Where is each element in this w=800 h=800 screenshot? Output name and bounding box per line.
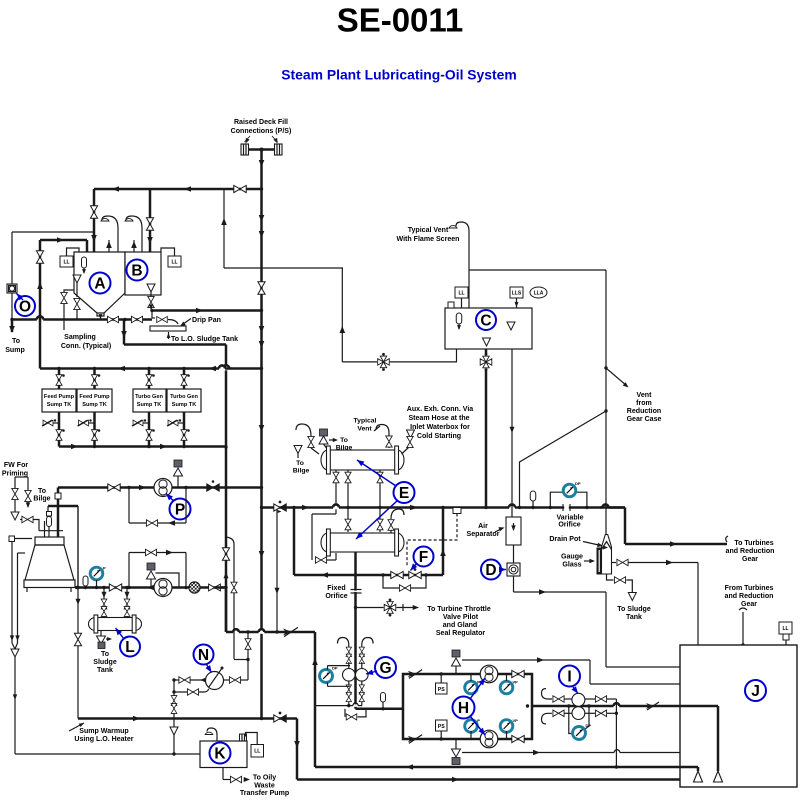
level switch LL tank K xyxy=(251,745,264,758)
svg-text:Feed Pump: Feed Pump xyxy=(79,394,110,400)
pipe thermostatic manifold xyxy=(294,574,443,577)
heater L drain xyxy=(100,631,102,637)
svg-text:Raised Deck Fill: Raised Deck Fill xyxy=(234,119,288,126)
svg-text:Typical: Typical xyxy=(354,418,377,425)
svg-text:With Flame Screen: With Flame Screen xyxy=(397,236,460,243)
pipe strainer suction xyxy=(11,232,13,284)
svg-text:Sump: Sump xyxy=(5,347,25,354)
valve on fill trunk xyxy=(258,282,265,294)
pipe main supply header xyxy=(262,506,626,509)
pipe main return line into tank J xyxy=(315,766,698,769)
svg-text:Feed Pump: Feed Pump xyxy=(44,394,75,400)
level switch LL right of tank B xyxy=(168,256,181,267)
fitting on tank K top xyxy=(240,734,247,741)
heat exchanger E cooler 2 xyxy=(328,533,397,552)
svg-text:Air: Air xyxy=(478,523,488,530)
node C xyxy=(476,310,496,330)
svg-text:Using L.O. Heater: Using L.O. Heater xyxy=(74,736,133,743)
valve tank A fill xyxy=(90,206,97,218)
funnel FW drain xyxy=(14,500,16,512)
pipe warmup drop to tank line xyxy=(296,719,299,780)
pipe gear case drain into tank J xyxy=(605,592,607,667)
valve sump warmup xyxy=(274,715,286,722)
check valve bottom left xyxy=(408,735,422,744)
suction bellmouths in tank J xyxy=(694,771,703,782)
svg-text:To Turbines: To Turbines xyxy=(734,540,773,547)
pilot sensing dashed line xyxy=(407,514,457,567)
thermometer tank C xyxy=(456,313,462,324)
tank A settling tank body xyxy=(74,252,125,313)
svg-text:Turbo Gen: Turbo Gen xyxy=(170,394,198,400)
pipe drop to tank A xyxy=(93,189,96,252)
purifier supply pumps G xyxy=(343,669,356,682)
pump standby lube oil pump xyxy=(154,579,172,597)
pipe cooler drain spur xyxy=(276,508,278,633)
svg-text:SE-0011: SE-0011 xyxy=(337,2,464,39)
svg-text:Vent: Vent xyxy=(357,426,372,433)
svg-text:Turbo Gen: Turbo Gen xyxy=(135,394,163,400)
svg-text:LL: LL xyxy=(63,259,69,265)
node E xyxy=(394,482,415,503)
pointer arrow I to pump xyxy=(573,687,578,694)
node H xyxy=(453,697,475,719)
svg-text:Reduction: Reduction xyxy=(627,408,661,415)
svg-text:Gear Case: Gear Case xyxy=(627,416,662,423)
vent hook left of cooler 1 xyxy=(296,424,311,436)
pipe heater N inlet from tank K side xyxy=(174,679,206,681)
relief line bottom to sump tank xyxy=(462,752,680,754)
node J xyxy=(745,680,766,701)
svg-text:From Turbines: From Turbines xyxy=(725,585,774,592)
vent swan neck on tank B xyxy=(126,216,142,252)
svg-text:Variable: Variable xyxy=(556,514,583,521)
pipe cooler bypass down leg xyxy=(293,508,296,576)
svg-text:To: To xyxy=(38,488,47,495)
level switch LLS tank C xyxy=(510,287,523,298)
valve A drain right xyxy=(131,316,142,322)
relief valve bottom H xyxy=(452,758,460,765)
drain pot vessel xyxy=(602,535,612,575)
tank A drain chute xyxy=(97,313,104,316)
drip pan xyxy=(150,326,186,331)
test capsule on header xyxy=(530,491,536,501)
pressure switch PS top xyxy=(436,683,448,694)
svg-text:G: G xyxy=(379,660,391,677)
tank Feed Pump Sump TK 2 xyxy=(77,389,112,412)
svg-text:To Turbine Throttle: To Turbine Throttle xyxy=(427,606,491,613)
valve heater bypass drop xyxy=(77,588,79,719)
svg-text:Sump Warmup: Sump Warmup xyxy=(79,728,129,735)
pipe purifier return spur xyxy=(315,705,362,707)
relief valve cooler 1 to bilge xyxy=(320,429,328,436)
tank Turbo Gen Sump TK 2 xyxy=(167,389,201,412)
LO heater N steam heater xyxy=(206,672,224,690)
pipe vent header to gear case xyxy=(469,269,606,271)
thermometer in tank A xyxy=(82,257,87,268)
pipe purifier discharge riser xyxy=(314,632,317,767)
node O xyxy=(15,296,35,316)
valve tank B drain lower xyxy=(151,308,152,311)
pipe air separator to sight glass xyxy=(513,545,515,563)
pump manifold block H xyxy=(403,674,532,739)
pressure gauge on header xyxy=(90,567,103,580)
label Sump Warmup Using L.O. Heater xyxy=(69,723,84,731)
svg-text:L: L xyxy=(125,639,134,656)
svg-text:Connections (P/S): Connections (P/S) xyxy=(231,128,292,135)
svg-text:A: A xyxy=(94,276,105,293)
guard valve with locking arrow xyxy=(207,484,219,491)
valve heater N outlet xyxy=(224,679,230,681)
pipe riser to tank C line xyxy=(341,268,343,362)
valve tank B fill xyxy=(146,218,153,230)
pump P bypass loop xyxy=(128,488,130,524)
svg-text:and Reduction: and Reduction xyxy=(725,593,774,600)
suction hooks pumps I xyxy=(542,689,553,700)
level switch LL left of tank A xyxy=(60,256,73,267)
tank B drain funnel xyxy=(147,284,155,292)
valve fill header xyxy=(234,185,246,192)
pipe sump suction manifold xyxy=(59,445,226,448)
svg-text:PS: PS xyxy=(438,724,445,730)
svg-text:Drain Pot: Drain Pot xyxy=(549,536,581,543)
svg-text:Inlet Waterbox for: Inlet Waterbox for xyxy=(410,424,470,431)
svg-text:Bilge: Bilge xyxy=(33,496,50,503)
pipe drain pot return drop into tank J xyxy=(697,563,699,646)
svg-text:from: from xyxy=(636,400,652,407)
pipe to tank A top xyxy=(40,239,87,242)
pipe vent stubs into tank xyxy=(108,240,110,252)
pipe purifier suction manifold xyxy=(215,586,226,589)
valves above pumps G xyxy=(346,647,351,656)
funnels inside tank C xyxy=(507,322,515,330)
pipe tank fill header xyxy=(94,188,262,191)
pipe purifier suction branch xyxy=(223,189,225,268)
strainer magnetic on discharge xyxy=(189,582,200,593)
level alarm LLA tank C xyxy=(530,287,547,298)
tank K renovated oil tank xyxy=(200,741,247,768)
level switch LL tank C xyxy=(455,287,468,298)
drain pot outlet valve xyxy=(612,562,617,564)
pipe to sump with arrow xyxy=(11,320,14,333)
level switch LL tank J xyxy=(779,622,792,634)
pointer arrow L to heater xyxy=(116,628,125,639)
tank Feed Pump Sump TK 1 xyxy=(42,389,76,412)
svg-text:LLS: LLS xyxy=(512,290,522,296)
pointer arrow O to strainer xyxy=(17,294,24,301)
relief valve standby pump xyxy=(147,563,155,570)
relief valve pump P xyxy=(174,460,182,467)
relief line to sump tank xyxy=(462,659,590,661)
funnel to bilge xyxy=(294,446,302,454)
pipe heater N supply xyxy=(247,632,249,660)
variable orifice symbol xyxy=(563,504,570,511)
tank Turbo Gen Sump TK 1 xyxy=(133,389,166,412)
pump H discharge header to gear xyxy=(532,705,718,708)
svg-text:VP: VP xyxy=(513,718,519,723)
check valve top left xyxy=(408,670,422,679)
svg-text:Tank: Tank xyxy=(626,614,642,621)
tank C inlet from vent line xyxy=(456,349,458,362)
svg-text:Conn. (Typical): Conn. (Typical) xyxy=(61,343,111,350)
pump P main lube oil service pump xyxy=(154,479,172,497)
heat exchanger E cooler 1 xyxy=(328,450,397,470)
pointer arrow D to sight glass xyxy=(502,569,507,571)
main engine turbine casing xyxy=(35,537,64,545)
pipe sump supply manifold xyxy=(40,367,262,370)
pipe standby pump suction header xyxy=(75,586,226,589)
pipe transfer riser xyxy=(39,240,42,369)
svg-text:DP: DP xyxy=(332,666,338,671)
label To Turbines and Reduction Gear xyxy=(726,536,728,542)
pipe riser from supply header xyxy=(442,508,445,576)
svg-text:Sump TK: Sump TK xyxy=(172,402,197,408)
valves discharge pumps I xyxy=(585,698,595,700)
sampling connection valve left xyxy=(64,290,74,292)
pipe from turbines into tank J xyxy=(742,612,744,645)
svg-text:Steam Plant Lubricating-Oil Sy: Steam Plant Lubricating-Oil System xyxy=(281,67,516,83)
pipe priming riser to main engine xyxy=(57,488,60,539)
svg-text:Aux. Exh. Conn. Via: Aux. Exh. Conn. Via xyxy=(407,406,474,413)
label To L.O. Sludge Tank xyxy=(168,332,170,339)
svg-text:Gear: Gear xyxy=(742,556,758,563)
leader arrows to deck fill connections xyxy=(245,136,251,142)
svg-text:P: P xyxy=(175,502,185,519)
svg-text:To Oily: To Oily xyxy=(253,775,276,782)
valve transfer riser xyxy=(36,251,43,263)
cooler 2 outlet to orifice xyxy=(354,552,357,608)
three way valve group F xyxy=(391,571,403,578)
svg-text:K: K xyxy=(214,746,226,763)
vent hook right of cooler 1 xyxy=(376,425,389,438)
deck fill connection P/S fittings xyxy=(248,148,275,151)
pipe pump I discharge loop xyxy=(607,698,616,700)
node G xyxy=(375,657,396,678)
node K xyxy=(210,743,231,764)
sampling valve below funnel xyxy=(76,283,78,297)
fitting on tank C top xyxy=(448,302,454,308)
node D xyxy=(481,560,501,580)
pipe heater L inlet drops xyxy=(103,588,105,618)
pipe sight glass drain to gear case line xyxy=(513,576,515,592)
svg-text:Gauge: Gauge xyxy=(561,554,583,561)
pipe jog line from down-comer xyxy=(226,537,234,659)
node I xyxy=(559,666,580,687)
cooler 2 bypass piping xyxy=(312,513,336,515)
svg-text:LL: LL xyxy=(171,259,177,265)
pipe tank B drain xyxy=(150,292,152,297)
pointer arrow P to pump xyxy=(166,494,174,502)
node N xyxy=(194,645,214,665)
valve A drain left xyxy=(107,316,118,322)
svg-text:Orifice: Orifice xyxy=(558,521,580,528)
turbine top connections xyxy=(44,521,46,538)
svg-text:DP: DP xyxy=(586,723,592,728)
valves discharge H block xyxy=(512,670,524,677)
svg-text:To: To xyxy=(296,460,304,467)
svg-text:F: F xyxy=(419,549,428,566)
pipe sampling manifold to sump xyxy=(12,318,152,321)
pipe tank K outlet xyxy=(222,768,224,780)
gauge glass xyxy=(597,548,601,574)
svg-text:LLA: LLA xyxy=(534,290,544,296)
svg-text:VP: VP xyxy=(513,680,519,685)
svg-text:P: P xyxy=(103,566,106,571)
svg-text:LL: LL xyxy=(458,290,464,296)
tank C drain line xyxy=(485,349,488,508)
node P xyxy=(170,499,191,520)
svg-text:FW For: FW For xyxy=(4,462,29,469)
svg-text:Steam Hose at the: Steam Hose at the xyxy=(408,415,469,422)
pipe drop to tank B xyxy=(149,189,152,252)
valves below pumps G xyxy=(348,681,350,706)
svg-text:PS: PS xyxy=(438,687,445,693)
svg-text:Sump TK: Sump TK xyxy=(47,402,72,408)
turbine driven pump bottom xyxy=(480,730,498,748)
pipe pump P suction header xyxy=(58,486,262,489)
svg-text:N: N xyxy=(198,647,209,664)
sight glass D xyxy=(507,563,520,576)
test capsule on header xyxy=(83,576,88,586)
svg-text:I: I xyxy=(567,669,571,686)
pipe pump H suction header xyxy=(356,708,404,711)
sump tank suction drops and valves xyxy=(58,412,61,447)
vent riser with flame screen xyxy=(468,231,470,308)
svg-text:Typical Vent: Typical Vent xyxy=(408,227,449,234)
pipe drop to transfer main xyxy=(173,680,175,754)
pipe to turbines and reduction gear xyxy=(625,543,727,546)
pipe main fill trunk vertical xyxy=(260,150,263,719)
heat exchanger L lube oil heater xyxy=(96,618,135,631)
svg-text:H: H xyxy=(458,700,469,717)
sampling funnel tank A xyxy=(73,275,81,283)
pipe gravity feed main down to pumps xyxy=(354,608,357,709)
svg-text:Seal Regulator: Seal Regulator xyxy=(436,630,486,637)
funnel drain collector xyxy=(11,649,19,657)
svg-text:Bilge: Bilge xyxy=(293,468,310,475)
turbine driven pump top xyxy=(480,665,498,683)
pipe to turbine throttle pilot xyxy=(356,607,417,609)
svg-text:Sump TK: Sump TK xyxy=(137,402,162,408)
valves suction pumps I xyxy=(553,696,564,702)
svg-text:Valve Pilot: Valve Pilot xyxy=(443,614,479,621)
svg-text:Cold Starting: Cold Starting xyxy=(417,433,461,440)
node L xyxy=(120,637,140,657)
pipe bottom return to sump tank J xyxy=(297,778,680,781)
svg-text:C: C xyxy=(480,313,491,330)
svg-text:Sampling: Sampling xyxy=(64,334,96,341)
pointer arrows H to pumps xyxy=(470,678,485,699)
aux exhaust connection funnel xyxy=(407,430,415,438)
standby pump bypass xyxy=(128,553,130,588)
pointer arrow N to heater xyxy=(207,665,212,673)
turbine oil supply manifold xyxy=(48,505,78,508)
node F xyxy=(414,547,434,567)
node B xyxy=(127,260,148,281)
tank J main sump tank xyxy=(680,645,797,787)
svg-text:D: D xyxy=(485,562,496,579)
svg-text:B: B xyxy=(131,263,142,280)
svg-text:Sludge: Sludge xyxy=(93,659,117,666)
svg-text:To: To xyxy=(101,651,110,658)
vent swan neck on tank A xyxy=(102,216,118,252)
check valve on manifold xyxy=(283,627,298,636)
svg-text:Sump TK: Sump TK xyxy=(82,402,107,408)
pipe to drain pot xyxy=(624,508,627,545)
air separator box xyxy=(506,517,521,545)
gauges bottom pumps xyxy=(465,720,478,733)
label pointer Vent from Reduction Gear Case xyxy=(606,368,627,386)
svg-text:Fixed: Fixed xyxy=(327,585,345,592)
pipe drop from manifold to drain header xyxy=(123,320,126,345)
FW priming valves xyxy=(14,477,16,488)
tank C overflow line xyxy=(511,349,513,517)
pointer arrow F to valve xyxy=(411,563,418,571)
dp gauge loop variable orifice xyxy=(550,492,587,507)
fixed orifice symbol xyxy=(351,590,362,594)
valve on down-comer xyxy=(222,548,229,560)
svg-text:LL: LL xyxy=(254,749,260,755)
svg-text:and Reduction: and Reduction xyxy=(726,548,775,555)
svg-text:To L.O. Sludge Tank: To L.O. Sludge Tank xyxy=(171,336,238,343)
valve priming connection xyxy=(20,519,35,521)
strainer duplex O xyxy=(7,284,17,293)
svg-text:Glass: Glass xyxy=(562,562,581,569)
svg-text:and Gland: and Gland xyxy=(443,622,477,629)
svg-text:Separator: Separator xyxy=(467,531,500,538)
svg-text:J: J xyxy=(751,683,760,700)
relief valve top H xyxy=(452,650,460,657)
drip pan valve xyxy=(151,311,153,318)
pointer arrows E to coolers xyxy=(357,460,396,486)
dp gauge pumps I xyxy=(567,704,570,707)
gravity tank pumps I xyxy=(572,693,585,706)
sump tank fill valves xyxy=(58,369,61,390)
svg-text:To Sludge: To Sludge xyxy=(617,606,651,613)
vent hooks above pumps G xyxy=(338,638,349,649)
pipe gear case vent line xyxy=(605,270,607,534)
pipe overflow header to trunk xyxy=(152,309,262,312)
svg-text:Waste: Waste xyxy=(254,783,275,790)
valve vent cooler 1 xyxy=(308,436,314,447)
gauges top pumps xyxy=(465,681,478,694)
svg-text:DP: DP xyxy=(575,481,581,486)
drain valve below header xyxy=(344,709,346,717)
vent on tank K xyxy=(207,728,217,741)
vent line tank C to trunk xyxy=(342,361,457,363)
svg-text:LL: LL xyxy=(782,626,788,632)
drain pot sludge valve xyxy=(607,574,614,580)
svg-text:To: To xyxy=(12,338,21,345)
pipe strainer discharge to sump manifold xyxy=(11,293,13,320)
svg-text:E: E xyxy=(399,485,409,502)
sump tank side connections xyxy=(43,422,59,424)
pipe overflow drop to return line xyxy=(615,713,617,767)
tank B settling tank body xyxy=(125,252,161,295)
tank C gravity tank xyxy=(445,308,532,349)
bypass below valve F xyxy=(383,575,426,588)
svg-text:P: P xyxy=(477,718,480,723)
node A xyxy=(90,273,111,294)
pipe gear case vent to air separator xyxy=(520,411,607,508)
svg-text:O: O xyxy=(19,299,31,316)
svg-text:Orifice: Orifice xyxy=(325,593,347,600)
pointer arrow G to pump xyxy=(366,671,377,674)
svg-text:Gear: Gear xyxy=(741,601,757,608)
svg-text:Tank: Tank xyxy=(97,667,113,674)
pressure switch PS bottom xyxy=(436,720,448,731)
svg-text:To: To xyxy=(340,437,348,444)
dp gauge pumps G xyxy=(320,670,333,683)
